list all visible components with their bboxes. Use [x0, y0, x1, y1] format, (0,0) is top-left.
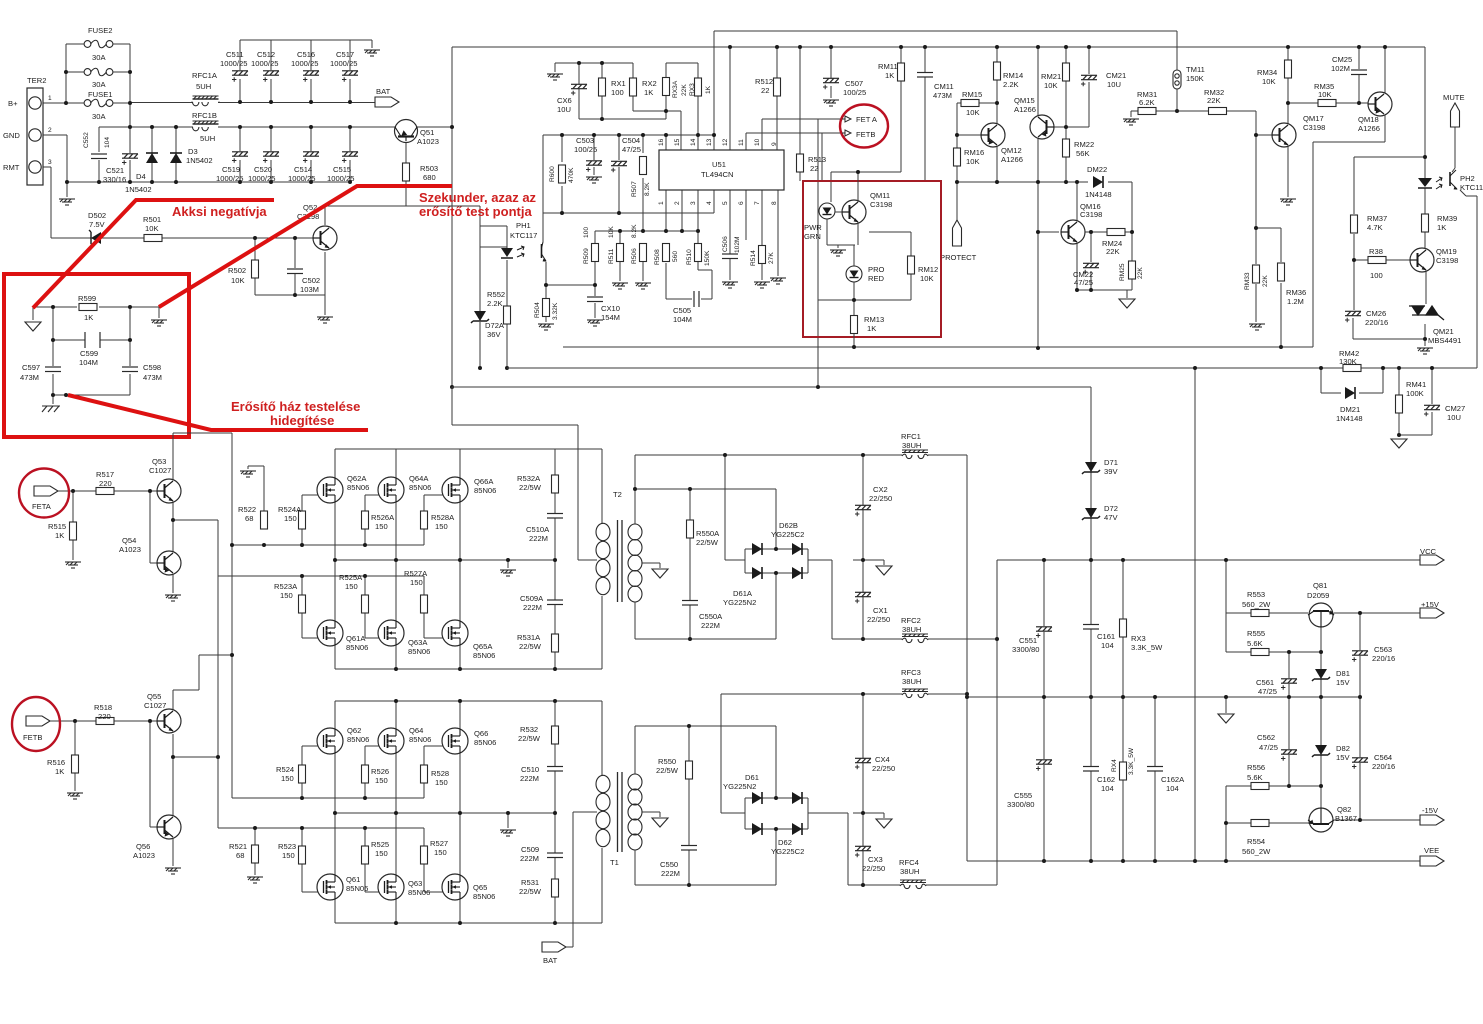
capacitor C162	[1083, 767, 1099, 772]
ground below C506	[722, 282, 738, 288]
resistor R532	[552, 726, 559, 744]
resistor RM12	[908, 256, 915, 274]
svg-text:30A: 30A	[92, 80, 106, 89]
open arrow FET A	[842, 116, 851, 122]
svg-text:U51: U51	[712, 160, 726, 169]
svg-text:QM15: QM15	[1014, 96, 1035, 105]
wire: RX2 column	[632, 63, 634, 111]
svg-text:PH1: PH1	[516, 221, 531, 230]
ground below R511	[612, 283, 628, 289]
wire: T2 secondary bottom to rail y639	[634, 602, 636, 639]
QM11 wires	[827, 172, 911, 347]
wire: block B upper sources	[335, 753, 460, 813]
svg-text:RM34: RM34	[1257, 68, 1277, 77]
wire: R513 column	[799, 47, 801, 181]
svg-text:BAT: BAT	[543, 956, 558, 965]
wire: R550 / C550 column	[688, 726, 690, 885]
svg-text:RM22: RM22	[1074, 140, 1094, 149]
svg-text:1N5402: 1N5402	[186, 156, 213, 165]
svg-text:10K: 10K	[1262, 77, 1276, 86]
svg-text:DM21: DM21	[1340, 405, 1360, 414]
ground below QM21	[1417, 348, 1433, 354]
capacitor C509	[547, 853, 563, 858]
capacitor C517	[342, 71, 358, 82]
resistor R38	[1368, 257, 1386, 264]
ground triangle T1 tap	[652, 818, 668, 827]
svg-text:220: 220	[98, 712, 111, 721]
wire: RM11 column + y172 link	[831, 47, 901, 202]
svg-text:QM12: QM12	[1001, 146, 1022, 155]
wire: RM21 column	[1065, 47, 1067, 182]
resistor R522	[261, 511, 268, 529]
svg-text:3: 3	[48, 159, 52, 166]
wire: rail y455 RFC1	[635, 454, 967, 456]
wire: block A lower drains	[335, 560, 460, 621]
capacitor C552	[91, 154, 107, 159]
ground arrow left in box	[25, 322, 41, 331]
svg-text:1K: 1K	[867, 324, 876, 333]
resistor R550	[686, 761, 693, 779]
svg-text:R556: R556	[1247, 763, 1265, 772]
ground below Q52	[317, 317, 333, 323]
svg-text:R523: R523	[278, 842, 296, 851]
wire: CM21 column	[1088, 47, 1090, 127]
resistor R509	[592, 244, 599, 262]
capacitor C509A	[547, 600, 563, 605]
svg-text:RM39: RM39	[1437, 214, 1457, 223]
ground right in box	[151, 320, 167, 326]
wire: top rail y31	[714, 31, 1177, 135]
transistor Q55	[157, 709, 181, 733]
svg-text:VEE: VEE	[1424, 846, 1439, 855]
capacitor CM22	[1083, 263, 1099, 274]
svg-text:220/16: 220/16	[1372, 654, 1395, 663]
MOSFET Q62	[317, 728, 343, 754]
resistor R528A	[421, 511, 428, 529]
+15V tag	[1420, 608, 1444, 618]
svg-text:R515: R515	[48, 522, 66, 531]
wire: C521 column	[129, 127, 131, 182]
wire: mid rail y697	[967, 696, 1360, 698]
svg-text:FET A: FET A	[856, 115, 878, 124]
svg-text:5UH: 5UH	[200, 134, 215, 143]
ground triangle below y290	[1119, 299, 1135, 308]
svg-text:FETB: FETB	[856, 130, 875, 139]
svg-text:C3198: C3198	[870, 200, 892, 209]
svg-text:R524: R524	[276, 765, 294, 774]
wire: QM19 emitter to QM21	[1425, 270, 1427, 304]
wire: lower bridge right output	[808, 813, 848, 885]
inductor RFC3	[902, 689, 928, 698]
ground below rail y182	[59, 199, 75, 205]
capacitor C550A	[682, 601, 698, 606]
svg-text:10K: 10K	[966, 108, 980, 117]
resistor R599	[79, 304, 97, 311]
svg-text:150: 150	[345, 582, 358, 591]
wire: FETA input row	[58, 491, 161, 560]
wire: GND pin2 drop	[43, 135, 67, 182]
resistor R524	[299, 765, 306, 783]
transistor QM18	[1368, 92, 1392, 116]
wire: RX3 column	[1122, 560, 1124, 697]
resistor R517	[96, 488, 114, 495]
MOSFET Q64	[378, 728, 404, 754]
svg-text:85N06: 85N06	[347, 483, 369, 492]
wire: C598 column	[129, 340, 131, 395]
svg-text:680: 680	[423, 173, 436, 182]
MOSFET Q62A	[317, 477, 343, 503]
svg-text:CX2: CX2	[873, 485, 888, 494]
zener D81	[1312, 669, 1330, 681]
svg-text:130K: 130K	[1339, 357, 1357, 366]
svg-text:1000/25: 1000/25	[291, 59, 318, 68]
FETB tag	[26, 716, 50, 726]
capacitor C520	[263, 152, 279, 163]
svg-text:RX3: RX3	[689, 83, 696, 96]
wire: R508/C505 loop	[666, 261, 712, 299]
wire: CM26/QM21 bottom y339	[1353, 318, 1425, 346]
wire: y119 link	[579, 111, 666, 119]
svg-text:RM13: RM13	[864, 315, 884, 324]
transistor QM11	[842, 200, 866, 224]
resistor RM16	[954, 148, 961, 166]
svg-text:D82: D82	[1336, 744, 1350, 753]
svg-text:2: 2	[48, 127, 52, 134]
wire: Q52 collector riser + y206 run	[325, 206, 480, 225]
svg-text:68: 68	[245, 514, 253, 523]
svg-text:QM19: QM19	[1436, 247, 1457, 256]
svg-text:CM11: CM11	[934, 82, 954, 91]
svg-text:C512: C512	[257, 50, 275, 59]
svg-text:R514: R514	[750, 250, 757, 266]
resistor RX2	[630, 78, 637, 96]
svg-text:10K: 10K	[1044, 81, 1058, 90]
wire: CX4/CX3 column	[862, 694, 864, 885]
svg-text:A1266: A1266	[1358, 124, 1380, 133]
svg-text:Q65A: Q65A	[473, 642, 493, 651]
svg-text:RM41: RM41	[1406, 380, 1426, 389]
resistor RM22	[1063, 139, 1070, 157]
svg-text:C3198: C3198	[1303, 123, 1325, 132]
svg-text:RM15: RM15	[962, 90, 982, 99]
svg-text:R508: R508	[654, 249, 661, 265]
resistor R508	[663, 244, 670, 262]
ground below CX10	[587, 320, 603, 326]
PH2 phototransistor	[1450, 170, 1458, 190]
wire: x818 FETA drop	[818, 119, 854, 387]
capacitor C161	[1083, 625, 1099, 630]
svg-text:A1266: A1266	[1001, 155, 1023, 164]
svg-text:22/250: 22/250	[867, 615, 890, 624]
svg-text:C503: C503	[576, 136, 594, 145]
wire: QM16 collector	[1076, 182, 1078, 222]
svg-text:CM26: CM26	[1366, 309, 1386, 318]
svg-text:220/16: 220/16	[1372, 762, 1395, 771]
junction dots section1	[64, 101, 68, 105]
svg-text:1N4148: 1N4148	[1085, 190, 1112, 199]
capacitor C551	[1036, 627, 1052, 638]
wire: R555 row	[1226, 651, 1321, 653]
resistor RX3	[695, 78, 702, 96]
svg-text:103M: 103M	[300, 285, 319, 294]
red annotation: Akksi line + diagonal	[33, 186, 452, 430]
thermistor TM11	[1173, 70, 1181, 89]
svg-text:Q82: Q82	[1337, 805, 1351, 814]
svg-text:Q61A: Q61A	[346, 634, 366, 643]
svg-text:PH2: PH2	[1460, 174, 1475, 183]
wire: top cap rail y40	[240, 39, 372, 41]
svg-text:D61: D61	[745, 773, 759, 782]
wire: block A lower sources	[335, 645, 460, 669]
MOSFET Q61	[317, 874, 343, 900]
svg-text:22/5W: 22/5W	[519, 642, 542, 651]
wire: block B mid bus	[335, 813, 555, 828]
svg-text:RX3: RX3	[1131, 634, 1146, 643]
svg-text:1K: 1K	[1437, 223, 1446, 232]
capacitor CX3	[855, 846, 871, 857]
wire: R509 column	[594, 231, 596, 285]
ground triangle lower	[876, 819, 892, 828]
BAT tag bottom	[542, 942, 566, 952]
svg-text:R502: R502	[228, 266, 246, 275]
svg-text:RFC1: RFC1	[901, 432, 921, 441]
wire: TM11 column	[1176, 31, 1178, 111]
capacitor CM27	[1424, 405, 1440, 416]
wire: Q55/Q56 base link	[150, 721, 161, 827]
svg-text:RX2: RX2	[642, 79, 657, 88]
optocoupler PH2 LED	[1418, 178, 1432, 188]
resistor RX1	[599, 78, 606, 96]
svg-text:222M: 222M	[520, 854, 539, 863]
capacitor C564	[1352, 758, 1368, 769]
wire: y182 DM22 net	[957, 182, 1132, 232]
svg-text:12: 12	[722, 138, 729, 146]
wire: ground stub top right	[371, 40, 373, 48]
svg-text:3.3K_5W: 3.3K_5W	[1128, 747, 1135, 775]
svg-text:D61A: D61A	[733, 589, 753, 598]
wire: pin14 stub + RX3	[697, 135, 699, 150]
svg-text:7: 7	[754, 201, 761, 205]
wire: R38 row	[1354, 259, 1410, 261]
resistor RM41	[1396, 395, 1403, 413]
MOSFET Q65	[442, 874, 468, 900]
svg-text:R513: R513	[808, 155, 826, 164]
ground below QM17	[1280, 199, 1296, 205]
MOSFET Q64A	[378, 477, 404, 503]
wire: pin12 to rail y47	[729, 47, 731, 150]
svg-text:C515: C515	[333, 165, 351, 174]
svg-text:R553: R553	[1247, 590, 1265, 599]
svg-text:C507: C507	[845, 79, 863, 88]
wire: pin13 stub	[713, 135, 715, 150]
-15V tag	[1420, 815, 1444, 825]
capacitor C514	[303, 152, 319, 163]
svg-text:222M: 222M	[529, 534, 548, 543]
wire: B+ rail y102	[43, 102, 375, 105]
inductor RFC4	[900, 880, 926, 889]
wire: QM18 collector loop to x1313	[1313, 114, 1385, 347]
svg-text:1000/25: 1000/25	[330, 59, 357, 68]
wire: RM34 column	[1287, 47, 1289, 103]
wire: D4 column	[151, 127, 153, 182]
svg-text:KTC117: KTC117	[510, 231, 537, 240]
wire: rail y726	[635, 726, 776, 798]
svg-text:222M: 222M	[523, 603, 542, 612]
resistor RM11	[898, 63, 905, 81]
svg-text:GRN: GRN	[804, 232, 821, 241]
svg-text:102M: 102M	[1331, 64, 1350, 73]
wire: gate links B lower	[302, 864, 449, 892]
wire: QM16 base	[1038, 231, 1059, 233]
wire: Q81 base	[1320, 627, 1322, 652]
wire: x816 drop from red box to y387	[1090, 387, 1092, 560]
resistor RM39	[1422, 214, 1429, 232]
svg-text:R532: R532	[520, 725, 538, 734]
wire: C561 column	[1288, 652, 1290, 697]
svg-text:38UH: 38UH	[902, 677, 921, 686]
resistor R552	[504, 306, 511, 324]
resistor RX3	[1120, 619, 1127, 637]
wire: x822 FETB drop	[822, 133, 843, 181]
chassis ground bottom	[42, 406, 60, 412]
svg-text:8.2K: 8.2K	[644, 182, 651, 196]
svg-text:38UH: 38UH	[902, 441, 921, 450]
resistor R531A	[552, 634, 559, 652]
wire: block B lower sources	[335, 899, 460, 923]
svg-text:100/25: 100/25	[843, 88, 866, 97]
wire: y489 bridge feed	[635, 489, 776, 549]
svg-text:39V: 39V	[1104, 467, 1118, 476]
svg-text:T2: T2	[613, 490, 622, 499]
svg-text:CX10: CX10	[601, 304, 620, 313]
wire: cap columns C511,C512,C516,C517	[240, 40, 350, 102]
wire: T1 secondary bottom	[634, 850, 636, 885]
svg-text:RFC1A: RFC1A	[192, 71, 218, 80]
svg-text:85N06: 85N06	[474, 486, 496, 495]
svg-text:3300/80: 3300/80	[1012, 645, 1039, 654]
svg-text:C509A: C509A	[520, 594, 544, 603]
junction dots section4	[577, 61, 581, 65]
resistor RM25	[1129, 261, 1136, 279]
ground below pin8	[770, 278, 786, 284]
svg-text:14: 14	[690, 138, 697, 146]
ground triangle mid rail	[1218, 714, 1234, 723]
fuse middle	[84, 68, 113, 76]
ground QM11 emitter	[830, 250, 846, 256]
wire: CX2/CX1 column	[862, 455, 864, 639]
resistor RM37	[1351, 215, 1358, 233]
svg-text:Q63: Q63	[408, 879, 422, 888]
ground below R521	[247, 877, 263, 883]
wire: C507 column	[830, 47, 832, 98]
wire: y111 link to pin15	[633, 111, 681, 150]
svg-text:2: 2	[674, 201, 681, 205]
ground above R522	[240, 471, 256, 477]
red annotation: Erosito line + diagonal	[68, 395, 368, 430]
ground on mid bus A	[500, 570, 516, 576]
svg-text:T1: T1	[610, 858, 619, 867]
svg-text:PWR: PWR	[804, 223, 822, 232]
svg-text:C505: C505	[673, 306, 691, 315]
wire: C597 column	[52, 340, 54, 395]
wire: bottom row	[53, 395, 130, 404]
svg-text:2.2K: 2.2K	[1003, 80, 1019, 89]
svg-text:R554: R554	[1247, 837, 1265, 846]
wire: block B lower drains	[335, 813, 460, 875]
svg-text:C3198: C3198	[1080, 210, 1102, 219]
svg-text:R512: R512	[755, 77, 773, 86]
wire: fuse bus left x66	[66, 44, 85, 103]
svg-text:C561: C561	[1256, 678, 1274, 687]
wire: RX1 column	[601, 63, 603, 119]
svg-text:1K: 1K	[705, 85, 712, 94]
svg-text:222M: 222M	[701, 621, 720, 630]
wire: snubber column A	[554, 449, 556, 669]
resistor R528	[421, 765, 428, 783]
svg-text:R525: R525	[371, 840, 389, 849]
svg-text:D72A: D72A	[485, 321, 505, 330]
svg-text:C162: C162	[1097, 775, 1115, 784]
svg-text:RED: RED	[868, 274, 885, 283]
svg-text:1: 1	[658, 201, 665, 205]
wire: Q55 collector	[173, 655, 232, 714]
wire: block A mid bus y560	[335, 559, 555, 561]
wire: rail y639 RFC2	[635, 638, 997, 640]
wire: FETB input row	[50, 721, 161, 791]
wire: C504 column to y213	[618, 135, 620, 213]
resistor RM31	[1138, 108, 1156, 115]
wire: R599 row y307	[33, 306, 159, 308]
svg-text:C517: C517	[336, 50, 354, 59]
wire: y213 link	[543, 190, 714, 213]
wire: PH1 led column R552	[480, 226, 507, 368]
svg-text:85N06: 85N06	[409, 483, 431, 492]
svg-text:MBS4491: MBS4491	[1428, 336, 1461, 345]
svg-text:22/5W: 22/5W	[519, 887, 542, 896]
svg-text:YG225C2: YG225C2	[771, 847, 804, 856]
wire: left ground stub	[32, 307, 34, 320]
svg-text:3.3K_5W: 3.3K_5W	[1131, 643, 1163, 652]
wire: R514 column	[761, 264, 763, 280]
svg-text:5: 5	[722, 201, 729, 205]
transistor QM19	[1410, 248, 1434, 272]
capacitor C599	[85, 332, 100, 348]
svg-text:R527: R527	[430, 839, 448, 848]
svg-text:R528: R528	[431, 769, 449, 778]
svg-text:473M: 473M	[143, 373, 162, 382]
svg-text:C516: C516	[297, 50, 315, 59]
svg-text:C1027: C1027	[144, 701, 166, 710]
ground below C507	[823, 100, 839, 106]
svg-text:47/25: 47/25	[1074, 278, 1093, 287]
resistor RM21	[1063, 63, 1070, 81]
wire: x452 vertical	[451, 47, 453, 387]
svg-text:6: 6	[738, 201, 745, 205]
wire: Q82 base	[1320, 786, 1322, 808]
svg-text:GND: GND	[3, 131, 20, 140]
svg-text:22: 22	[761, 86, 769, 95]
junction dots section7	[633, 487, 637, 491]
wire: T1 center tap to BAT	[566, 812, 597, 947]
transistor QM12	[981, 123, 1005, 147]
svg-text:A1023: A1023	[119, 545, 141, 554]
fuse FUSE2	[84, 40, 113, 48]
transistor Q56	[157, 815, 181, 839]
svg-text:15: 15	[674, 138, 681, 146]
wire: block A top rail	[335, 449, 602, 524]
svg-text:MUTE: MUTE	[1443, 93, 1465, 102]
wire: main top rail y47	[452, 46, 1425, 48]
